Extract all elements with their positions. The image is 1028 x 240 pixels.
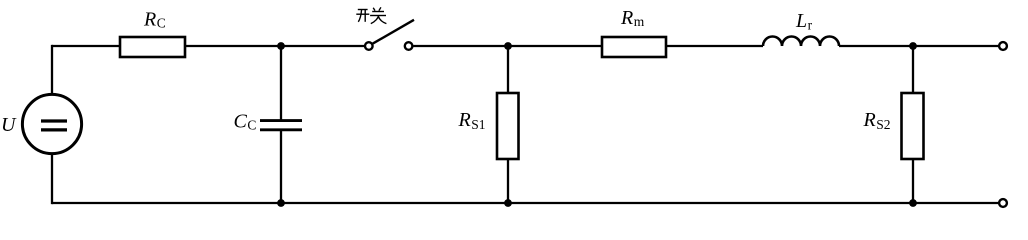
node top capacitor (277, 42, 285, 50)
node bottom R_S1 (504, 199, 512, 207)
node bottom R_S2 (909, 199, 917, 207)
wire R_S2 bottom lead (912, 158, 914, 203)
wire top: R_C to switch (184, 45, 364, 47)
resistor R_C (120, 37, 185, 57)
wire top: source to R_C (52, 45, 121, 47)
svg-text:Rm: Rm (620, 7, 645, 29)
label 开关 (switch) drawn strokes (356, 7, 386, 23)
source U (22, 94, 81, 153)
switch arm (373, 20, 414, 44)
wire capacitor bottom lead (280, 131, 282, 203)
svg-text:RS1: RS1 (458, 109, 486, 132)
terminal top right (999, 42, 1007, 50)
node top R_S1 (504, 42, 512, 50)
switch contact left (365, 42, 373, 50)
wire R_S1 bottom lead (507, 158, 509, 203)
svg-text:CC: CC (234, 110, 257, 132)
wire top: L_r to output terminal (839, 45, 999, 47)
svg-text:U: U (1, 114, 17, 136)
resistor R_m (602, 37, 666, 57)
wire R_S2 top lead (912, 46, 914, 94)
wire bottom (52, 202, 999, 204)
inductor L_r (763, 37, 839, 47)
wire capacitor top lead (280, 46, 282, 120)
terminal bottom right (999, 199, 1007, 207)
wire source top lead (51, 45, 53, 95)
wire top: switch to R_m (414, 45, 604, 47)
svg-text:RC: RC (143, 8, 166, 30)
node top R_S2 (909, 42, 917, 50)
wire source bottom lead (51, 152, 53, 204)
node bottom capacitor (277, 199, 285, 207)
wire R_S1 top lead (507, 46, 509, 94)
resistor R_S1 (497, 93, 519, 159)
switch contact right (405, 42, 413, 50)
resistor R_S2 (902, 93, 924, 159)
wire top: R_m to L_r (665, 45, 763, 47)
svg-text:RS2: RS2 (863, 109, 891, 132)
capacitor C_C (260, 119, 302, 122)
svg-text:Lr: Lr (795, 10, 813, 32)
